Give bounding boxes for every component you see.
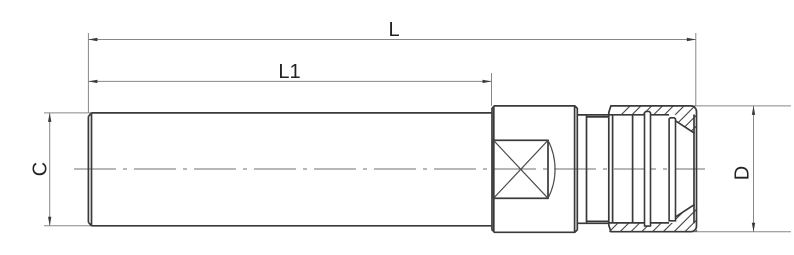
svg-text:C: C: [29, 162, 51, 176]
svg-text:L: L: [388, 19, 399, 41]
svg-text:D: D: [731, 166, 753, 180]
svg-text:L1: L1: [278, 61, 300, 83]
